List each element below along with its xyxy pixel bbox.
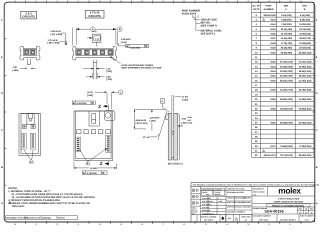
svg-text:-0.05: -0.05 — [187, 119, 191, 122]
svg-text:51.86(2.042): 51.86(2.042) — [299, 98, 312, 101]
svg-text:±___: ±___ — [210, 197, 214, 200]
svg-text:31.54(1.242): 31.54(1.242) — [299, 61, 312, 64]
svg-text:[.134]: [.134] — [121, 41, 127, 44]
svg-text:C: C — [316, 129, 318, 132]
svg-text:26.46(1.042): 26.46(1.042) — [299, 51, 312, 54]
svg-text:[.042]: [.042] — [182, 99, 188, 102]
svg-text:15.24(.600): 15.24(.600) — [281, 37, 293, 40]
svg-text:DOCUMENT NUMBER:: DOCUMENT NUMBER: — [227, 210, 246, 213]
note triangle 3 under 2-3 front view — [24, 150, 34, 163]
svg-text:CRIMP CONNECTOR HOUSING: CRIMP CONNECTOR HOUSING — [274, 200, 304, 203]
dims below 4-30 top view — [83, 69, 105, 79]
svg-text:10° ±2°: 10° ±2° — [143, 136, 150, 139]
svg-text:4.20 MAX: 4.20 MAX — [150, 116, 160, 119]
circuit windows row on front face — [77, 130, 111, 134]
hatching of section walls — [165, 91, 182, 175]
svg-text:[.211 ±.004]: [.211 ±.004] — [51, 33, 63, 36]
svg-text:⊕: ⊕ — [126, 45, 128, 48]
svg-text:[.067 ±.004]: [.067 ±.004] — [48, 42, 60, 45]
svg-text:PRODUCT CUSTOMER DRAWING: PRODUCT CUSTOMER DRAWING — [272, 204, 305, 207]
bottom band: material number, diamond, scale cells — [191, 215, 252, 222]
vertical molex text blocks on 2-3 front face — [21, 134, 35, 150]
svg-text:THIS FACE.: THIS FACE. — [12, 205, 25, 208]
svg-text:(1.07): (1.07) — [182, 96, 188, 99]
svg-text:-0145: -0145 — [270, 28, 277, 31]
svg-text:-0149: -0149 — [270, 47, 277, 50]
svg-text:90156-0172: 90156-0172 — [264, 154, 277, 157]
section cut line Z-Z — [108, 105, 110, 167]
label box: 4 TO 30 CIRCUITS — [85, 10, 104, 18]
svg-text:ANCES: ANCES — [214, 193, 221, 196]
svg-text:GENERAL MARKET: GENERAL MARKET — [280, 219, 297, 222]
svg-text:[.102]: [.102] — [106, 78, 112, 81]
svg-text:REDRAWN ON EPDS: REDRAWN ON EPDS — [227, 191, 245, 194]
svg-text:⊕: ⊕ — [73, 102, 75, 105]
svg-text:-0150: -0150 — [270, 51, 277, 54]
svg-text:6.14(.242): 6.14(.242) — [300, 14, 311, 17]
svg-text:-0154: -0154 — [270, 70, 277, 73]
svg-text:ANGULAR: ANGULAR — [202, 209, 211, 212]
svg-text:-0147: -0147 — [270, 37, 277, 40]
top zone numbers — [14, 0, 291, 3]
svg-text:SECTION Z-Z: SECTION Z-Z — [168, 162, 184, 165]
svg-text:-0146: -0146 — [270, 33, 277, 36]
svg-text:35.56(1.400): 35.56(1.400) — [280, 75, 293, 78]
svg-text:-0153: -0153 — [270, 65, 277, 68]
svg-text:DRAWN SCALE: DRAWN SCALE — [202, 212, 215, 215]
svg-text:53.34(2.100): 53.34(2.100) — [280, 107, 293, 110]
svg-text:-0143: -0143 — [270, 19, 277, 22]
svg-text:-0155: -0155 — [270, 75, 277, 78]
svg-text:SEE NOTE 1: SEE NOTE 1 — [201, 32, 216, 35]
chart rows text — [255, 14, 312, 157]
svg-text:90156-0142: 90156-0142 — [264, 14, 277, 17]
svg-text:RELEASE DATE: RELEASE DATE — [26, 217, 41, 220]
svg-text:B MAX: B MAX — [91, 167, 99, 170]
svg-text:2022/04/21: 2022/04/21 — [42, 217, 51, 220]
svg-text:(4.5): (4.5) — [93, 30, 97, 33]
svg-text:2022/04/21: 2022/04/21 — [243, 197, 252, 200]
svg-text:-0144: -0144 — [270, 23, 277, 26]
svg-text:CIRCUITS: CIRCUITS — [22, 16, 35, 19]
note triangle 4 under front view — [79, 149, 107, 165]
svg-text:-0160: -0160 — [270, 98, 277, 101]
svg-text:78.74(3.100): 78.74(3.100) — [280, 154, 293, 157]
svg-text:Z: Z — [100, 161, 103, 166]
svg-text:1 OF 1: 1 OF 1 — [304, 219, 309, 222]
svg-text:60.96(2.400): 60.96(2.400) — [280, 121, 293, 124]
svg-text:CIRCUITS: CIRCUITS — [88, 15, 101, 18]
svg-text:±.003]: ±.003] — [187, 121, 193, 124]
svg-text:A SRS H SINGLE ROW: A SRS H SINGLE ROW — [278, 198, 300, 201]
svg-text:[.055]: [.055] — [13, 69, 19, 72]
view: 4-30 circuit front (mating) face — [74, 111, 115, 161]
svg-text:[.165]: [.165] — [150, 119, 156, 122]
svg-text:0.10(.004): 0.10(.004) — [77, 102, 87, 105]
svg-text:1.70 ±0.10: 1.70 ±0.10 — [48, 39, 59, 42]
svg-text:48.26(1.900): 48.26(1.900) — [280, 98, 293, 101]
svg-text:3.40 MAX: 3.40 MAX — [121, 38, 131, 41]
draft angle line — [158, 111, 167, 140]
svg-text:DOCUMENT STATUS P1: DOCUMENT STATUS P1 — [6, 217, 28, 220]
document status strip — [6, 216, 78, 220]
svg-text:-0158: -0158 — [270, 89, 277, 92]
svg-text:20.32(.800): 20.32(.800) — [281, 47, 293, 50]
svg-text:1 PLACE: 1 PLACE — [202, 206, 210, 209]
svg-text:A: A — [1, 202, 3, 205]
svg-text:18.84(.742): 18.84(.742) — [299, 37, 311, 40]
note: gate location — [110, 57, 162, 70]
bottom zone numbers — [14, 223, 291, 226]
FCF true position box above front view — [72, 101, 95, 104]
view: 4-30 circuit housing top view — [72, 47, 116, 80]
dim (1.07) above front view with datum balloon — [87, 91, 93, 97]
svg-text:B: B — [119, 28, 121, 31]
svg-text:6.88 ±0.25: 6.88 ±0.25 — [136, 119, 147, 122]
tolerance grid — [201, 186, 227, 221]
svg-text:33.02(1.300): 33.02(1.300) — [280, 70, 293, 73]
svg-text:16.30(.642): 16.30(.642) — [299, 33, 311, 36]
svg-text:CURRENT REV DESC:: CURRENT REV DESC: — [227, 187, 245, 190]
svg-text:34.08(1.342): 34.08(1.342) — [299, 65, 312, 68]
svg-text:21.38(.842): 21.38(.842) — [299, 42, 311, 45]
svg-text:B: B — [316, 166, 318, 169]
svg-text:⊕: ⊕ — [83, 172, 85, 175]
svg-text:mm: mm — [206, 194, 210, 196]
notes block — [8, 187, 95, 208]
dim 5.36 and 1.17 left of top view — [48, 30, 63, 44]
datum C box above section — [160, 95, 181, 113]
svg-text:WITH DIFFERENT OR SAME CKT SIZ: WITH DIFFERENT OR SAME CKT SIZE — [122, 67, 162, 70]
svg-text:CKTS: CKTS — [253, 8, 260, 11]
svg-text:SEE TABLE: SEE TABLE — [259, 219, 269, 222]
svg-text:SHEET NUMBER: SHEET NUMBER — [300, 215, 314, 218]
svg-text:±.008: ±.008 — [218, 200, 222, 203]
dim line A/B with balloons above top view — [73, 27, 123, 46]
svg-text:56.94(2.242): 56.94(2.242) — [299, 107, 312, 110]
svg-text:-0162: -0162 — [270, 107, 277, 110]
svg-text:23.92(.942): 23.92(.942) — [299, 47, 311, 50]
svg-text:5.36 ±0.10: 5.36 ±0.10 — [51, 30, 62, 33]
view: 2-3 circuit front (mating) face — [19, 114, 41, 156]
vertical molex text blocks on front face — [76, 135, 111, 152]
svg-text:17.78(.700): 17.78(.700) — [281, 42, 293, 45]
svg-text:-0170: -0170 — [270, 145, 277, 148]
svg-text:(1.07): (1.07) — [87, 91, 93, 94]
part number chart table — [252, 2, 314, 157]
svg-text:±0.2: ±0.2 — [210, 200, 213, 203]
dim 4.20 MAX — [150, 116, 160, 122]
svg-text:molex: molex — [278, 186, 301, 196]
svg-text:0.10(.004): 0.10(.004) — [130, 47, 140, 50]
svg-text:36.62(1.442): 36.62(1.442) — [299, 70, 312, 73]
svg-text:27.94(1.100): 27.94(1.100) — [280, 61, 293, 64]
svg-text:AOYAGI: AOYAGI — [235, 206, 242, 209]
svg-text:±___: ±___ — [218, 197, 222, 200]
svg-text:38.10(1.500): 38.10(1.500) — [280, 79, 293, 82]
svg-text:-0152: -0152 — [270, 61, 277, 64]
middle approvals rows — [226, 186, 252, 221]
view: 2-3 circuit housing top view — [20, 46, 40, 64]
svg-text:7.62(.300): 7.62(.300) — [281, 23, 292, 26]
FCF below front view — [82, 171, 107, 175]
svg-text:GATE LOCATION MAY VARIES: GATE LOCATION MAY VARIES — [122, 64, 154, 67]
chart triangle markers — [263, 18, 265, 151]
label box: 2 & 3 CIRCUITS — [21, 11, 37, 19]
chart header text — [253, 4, 307, 11]
projection symbols column — [191, 186, 201, 221]
svg-text:2022/04/21: 2022/04/21 — [243, 201, 252, 204]
svg-text:Z: Z — [98, 104, 101, 109]
title block outline — [191, 183, 315, 222]
svg-text:64.56(2.542): 64.56(2.542) — [299, 121, 312, 124]
svg-text:90156-XXXX: 90156-XXXX — [182, 13, 197, 16]
latch detail box on top view — [87, 34, 101, 42]
svg-text:8.68(.342): 8.68(.342) — [300, 19, 311, 22]
svg-text:46.78(1.842): 46.78(1.842) — [299, 89, 312, 92]
svg-text:-0165: -0165 — [270, 121, 277, 124]
svg-text:(SEE CHART): (SEE CHART) — [201, 25, 217, 28]
svg-text:D: D — [316, 92, 318, 95]
svg-text:[.051]: [.051] — [106, 70, 112, 73]
svg-text:82.34(3.242): 82.34(3.242) — [299, 154, 312, 157]
svg-text:B: B — [1, 166, 3, 169]
svg-text:-0156: -0156 — [270, 79, 277, 82]
bottom info row — [252, 214, 299, 222]
description lines — [274, 198, 304, 204]
svg-text:±___: ±___ — [210, 203, 214, 206]
dim 6.88 left of section — [136, 119, 148, 125]
part number breakdown callout — [182, 9, 200, 15]
svg-text:2.54(.100): 2.54(.100) — [281, 14, 292, 17]
svg-text:77.26(3.042): 77.26(3.042) — [299, 145, 312, 148]
svg-text:DOCUMENT NUMBER: DOCUMENT NUMBER — [253, 215, 271, 218]
svg-text:DIM: DIM — [284, 4, 288, 7]
doc number row — [298, 207, 315, 214]
svg-text:13.76(.542): 13.76(.542) — [299, 28, 311, 31]
svg-text:12.70(.500): 12.70(.500) — [281, 33, 293, 36]
svg-text:[.042]: [.042] — [87, 94, 93, 97]
svg-text:+0.08: +0.08 — [187, 116, 192, 119]
svg-text:22.86(.900): 22.86(.900) — [281, 51, 293, 54]
svg-text:10.16(.400): 10.16(.400) — [281, 28, 293, 31]
svg-text:11.22(.442): 11.22(.442) — [299, 23, 311, 26]
svg-text:D: D — [1, 92, 3, 95]
dim 1.40 below 2-3 view — [13, 66, 37, 72]
note 3 triangle marker — [9, 201, 12, 204]
third angle projection text block — [192, 207, 199, 216]
svg-text:-0148: -0148 — [270, 42, 277, 45]
svg-text:PART: PART — [266, 4, 273, 7]
svg-text:SDA-90156: SDA-90156 — [264, 210, 283, 214]
svg-text:30.48(1.200): 30.48(1.200) — [280, 65, 293, 68]
dim 0.64 right of section — [182, 116, 193, 124]
svg-text:41.70(1.642): 41.70(1.642) — [299, 79, 312, 82]
svg-text:NUMBER: NUMBER — [264, 8, 274, 11]
svg-text:C: C — [1, 129, 3, 132]
svg-text:43.18(1.700): 43.18(1.700) — [280, 89, 293, 92]
svg-text:73.66(2.900): 73.66(2.900) — [280, 145, 293, 148]
svg-text:DIM: DIM — [302, 4, 306, 7]
dim 3.40 MAX and position FCF right of top view — [121, 38, 131, 44]
svg-text:0.10(.004): 0.10(.004) — [87, 172, 97, 175]
svg-text:A: A — [316, 202, 318, 205]
svg-text:No. OF: No. OF — [253, 4, 261, 7]
svg-text:2022/04/21: 2022/04/21 — [243, 206, 252, 209]
molex logo — [252, 186, 315, 214]
svg-text:39.16(1.542): 39.16(1.542) — [299, 75, 312, 78]
dim B MAX below front view — [74, 162, 117, 169]
svg-text:5.08(.200): 5.08(.200) — [281, 19, 292, 22]
svg-text:09:00:57: 09:00:57 — [58, 217, 66, 220]
svg-text:[.270 ±.010]: [.270 ±.010] — [136, 122, 148, 125]
